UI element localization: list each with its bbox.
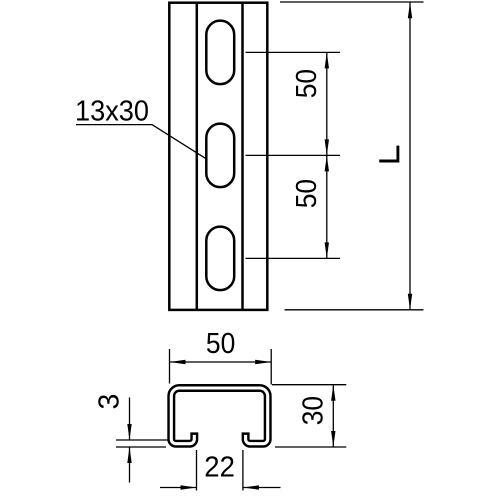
dimension line L xyxy=(409,2,411,310)
arrow down 3 xyxy=(127,424,131,440)
cross-section profile strip inner white core xyxy=(171,388,267,444)
cross-section profile strip outer xyxy=(171,388,267,444)
dimension line 22 right tail xyxy=(243,487,281,489)
arrow up at slot2 line xyxy=(325,155,329,171)
arrow down at slot2 line xyxy=(325,139,329,155)
extension line slot3 center xyxy=(246,257,341,259)
extension line 50 left xyxy=(169,349,171,384)
svg-text:50: 50 xyxy=(291,69,323,98)
dimension line 3 lower shaft xyxy=(129,447,131,483)
arrow right 50 width xyxy=(255,360,271,364)
arrow down at slot3 line xyxy=(325,242,329,258)
dimension line 50 lower xyxy=(326,155,328,258)
dimension line 30 xyxy=(332,385,334,447)
svg-text:50: 50 xyxy=(206,328,235,360)
arrow up 30 xyxy=(331,385,335,401)
arrow down 30 xyxy=(331,431,335,447)
extension line 22 right xyxy=(242,450,244,491)
arrow up 3 xyxy=(127,447,131,463)
dimension line 50 upper xyxy=(326,52,328,155)
front view rail outline xyxy=(169,3,267,310)
arrow up at slot1 line xyxy=(325,52,329,68)
svg-text:3: 3 xyxy=(93,394,125,410)
extension line 3 lower xyxy=(116,446,166,448)
rail right fold line xyxy=(241,3,244,310)
extension line 22 left xyxy=(196,450,198,491)
arrow down at L bottom xyxy=(408,294,412,310)
leader line 13x30 xyxy=(76,125,206,159)
extension line 50 right xyxy=(270,349,272,385)
svg-text:13x30: 13x30 xyxy=(75,96,149,128)
slot 2 xyxy=(206,124,234,187)
extension line 30 top xyxy=(272,384,346,386)
arrow right 22 xyxy=(181,485,197,489)
label L xyxy=(379,146,398,161)
dimension line 50 width xyxy=(170,361,272,363)
extension line 3 upper xyxy=(116,439,169,441)
arrow left 22 xyxy=(243,485,259,489)
extension line slot1 center xyxy=(246,51,341,53)
slot 1 xyxy=(206,21,234,85)
dimension line 22 left tail xyxy=(160,487,197,489)
arrow left 50 width xyxy=(170,360,186,364)
svg-text:22: 22 xyxy=(204,452,235,484)
svg-text:50: 50 xyxy=(291,179,323,208)
slot 3 xyxy=(206,227,234,291)
svg-text:30: 30 xyxy=(297,396,329,425)
extension line slot2 center xyxy=(246,154,341,156)
rail left fold line xyxy=(196,3,199,310)
extension line 30 bottom xyxy=(275,446,346,448)
extension line L top xyxy=(280,1,424,3)
extension line L bottom xyxy=(285,309,424,311)
arrow up at L top xyxy=(408,2,412,18)
dimension line 3 upper shaft xyxy=(129,398,131,441)
